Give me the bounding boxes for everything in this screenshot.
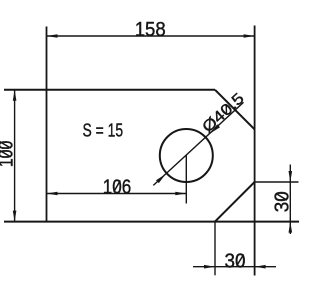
extension line left of bottom 30 dim — [214, 222, 216, 276]
slash of zero in bottom 30 — [237, 255, 244, 266]
arrow right of dim 106 — [175, 192, 186, 196]
arrow left of dim 106 — [47, 192, 58, 196]
arrow upper-right on leader — [211, 124, 221, 133]
arrow bottom of dim 100 — [13, 211, 17, 222]
extension line top of right 30 dim — [255, 181, 299, 183]
extension line from hole center down — [185, 156, 187, 204]
hole dim text Ø40.5 (rotated along leader) — [199, 90, 247, 136]
arrow lower-left on leader — [156, 174, 166, 183]
plate right edge with top extension line — [254, 26, 256, 276]
svg-text:100: 100 — [0, 141, 17, 168]
dim text 100 (rotated) — [0, 141, 17, 168]
arrow right of dim 158 — [244, 34, 255, 38]
dimension line 30 right — [289, 165, 291, 235]
plate left edge with top extension line — [46, 27, 48, 222]
svg-text:30: 30 — [225, 250, 246, 272]
arrow left of dim 158 — [47, 34, 58, 38]
dimension line 106 — [47, 193, 187, 195]
dimension line 158 — [47, 35, 255, 37]
arrow left of bottom 30 dim (outside, pointing right) — [204, 265, 215, 269]
arrow right of bottom 30 dim (outside, pointing left) — [255, 265, 266, 269]
plate bottom edge with left and right extension lines — [4, 221, 299, 223]
plate top edge with left extension line — [4, 89, 215, 91]
dimension line 100 — [14, 90, 16, 222]
svg-text:30: 30 — [271, 191, 293, 212]
dimension line 30 bottom — [193, 266, 276, 268]
svg-text:S = 15: S = 15 — [83, 119, 124, 140]
arrow bottom of right 30 dim (outside, pointing up) — [289, 222, 293, 233]
dim text 30 right (rotated) — [271, 191, 293, 212]
svg-text:158: 158 — [135, 19, 166, 41]
diameter leader line through hole — [153, 102, 243, 185]
plate top-right chamfer edge — [215, 90, 255, 130]
arrow top of dim 100 — [13, 90, 17, 101]
hole circle Ø40.5 — [160, 129, 213, 182]
slash of zero in 106 — [114, 181, 121, 192]
plate bottom-right chamfer edge — [215, 182, 255, 222]
arrow top of right 30 dim (outside, pointing down) — [289, 171, 293, 182]
